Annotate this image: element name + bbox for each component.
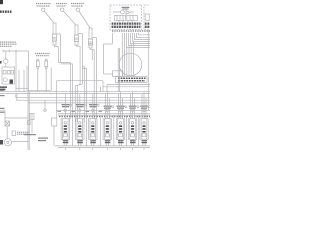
ECU title text [122,7,130,10]
inter-unit wire a [100,115,102,146]
wire diode down [6,126,8,139]
wire ECU to magneto f [132,42,134,77]
clutch caption [24,134,48,141]
wire sidestand to bus [12,141,29,143]
bus line 5 [28,102,150,104]
wire ECU to magneto a [121,33,123,77]
stub wire left [16,87,29,89]
HT lead coil 1 [57,34,61,62]
magneto label box [116,77,148,83]
ground bus bottom 1 [55,145,150,147]
label ignition coil 3 [71,4,84,7]
HT lead coil 2 [79,34,83,85]
title block [0,0,3,4]
wire ECU to magneto d [128,46,130,77]
main switch S1 [4,59,8,63]
HT lead coil 3 [93,38,97,120]
wire ECU out 3 [131,33,151,44]
unit bus pair [58,113,150,115]
wire bottom-left horizontal [5,117,28,119]
ignition coil 1 [52,23,56,45]
left branch caption [0,108,5,113]
inter-unit wire b [113,115,115,146]
junction box dark relay [10,80,14,84]
wire code marks [58,111,103,112]
wire code row under boxes [112,30,150,32]
wire switch drop [5,51,7,59]
relay pin text rows [145,24,150,27]
wire fuse2 down [45,69,47,92]
wire ECU to magneto e [130,44,132,77]
connector on wire [28,121,31,125]
fuse box enclosure [27,66,51,91]
wire junction out 3 [27,51,29,92]
relay caption box [12,131,16,136]
wire colour code row [59,116,150,118]
wire pair left of magneto [118,48,119,92]
HT lead branch [82,66,86,68]
title line [0,11,12,13]
wire pickup to left [104,73,113,75]
junction box fuses [3,71,13,82]
ECU pin text rows [112,24,141,27]
ignition coil 3 [88,28,92,48]
label ignition coil 1 [36,4,51,7]
left edge caption [0,90,5,96]
wire ECU out 2 [129,33,151,46]
ECU symbol drop wires [119,20,132,22]
pickup coil box [113,71,123,77]
leader wire 1 [44,11,54,23]
junction box [2,67,15,84]
relay box (dashed, right edge) [144,5,153,30]
injector unit 3 [89,94,100,146]
wire ECU to magneto b [123,33,125,77]
wire ECU out 7 [139,33,151,35]
lead tail a [72,119,74,146]
fuse link row [3,50,28,52]
wire ECU out 4 [133,33,151,42]
injector unit 6 [128,92,139,146]
fuse F2 [45,59,48,69]
wire ECU out 5 [135,33,151,40]
bus line 2 [0,93,150,95]
junction box caption [0,86,7,90]
bus line 4 [16,99,150,101]
wire ECU out 6 [137,33,151,38]
leader wire 3 [79,11,90,28]
fuse F1 [36,59,39,69]
engine enclosure edge [57,81,103,118]
inter-unit wire c [125,115,127,146]
relay coil [145,14,149,21]
wire junction out 1 [18,70,20,92]
edge margin mark [0,61,2,64]
wire left branch [0,110,5,121]
ECU box U1 (dashed) [110,5,142,30]
bus line 1 [0,91,150,93]
lead tail b [86,122,88,146]
wire pair lower left [28,92,29,150]
wire ECU left jog [104,33,113,74]
battery label [0,42,17,46]
bus line 3 [16,97,150,99]
wire pickup drop [100,87,102,92]
wire below magneto label 2 [103,87,150,92]
circles bus [56,110,150,112]
ECU relay symbol [113,10,137,20]
label ignition coil 2 [56,4,67,7]
injector unit 7 [140,92,151,146]
injector unit 5 [116,92,127,146]
ground bus bottom 2 [58,147,150,149]
leader wire 2 [63,11,76,25]
fuse pair label [35,54,50,56]
clutch switch wire [31,113,33,133]
wire right edge vertical [148,30,150,110]
sidestand dark connector [0,140,3,145]
clutch switch connector [30,114,34,120]
inter-unit wire d [137,115,139,146]
wire below magneto label 1 [107,85,150,92]
injector unit 1 [61,94,72,146]
wire ECU out 1 [127,33,151,48]
connector box left of units [52,118,57,126]
wire connector drop [53,126,55,146]
wire fuse row to junction [15,51,17,92]
callout circle 1 [42,8,45,11]
stub connector mid [44,100,46,109]
ground stubs [65,148,144,150]
sidestand switch [4,139,11,146]
callout circle 3 [76,8,79,11]
ignition coil 2 [74,25,78,45]
wire fuse1 down [37,69,39,92]
magneto circle M1 [119,53,142,76]
diode block D1 [5,121,10,126]
injector unit 2 [76,94,87,146]
wire junction out 2 [23,70,25,92]
injector unit 4 [103,92,114,146]
callout circle 2 [61,8,64,11]
bus corner left [16,94,17,101]
wire ECU to magneto c [126,48,128,77]
